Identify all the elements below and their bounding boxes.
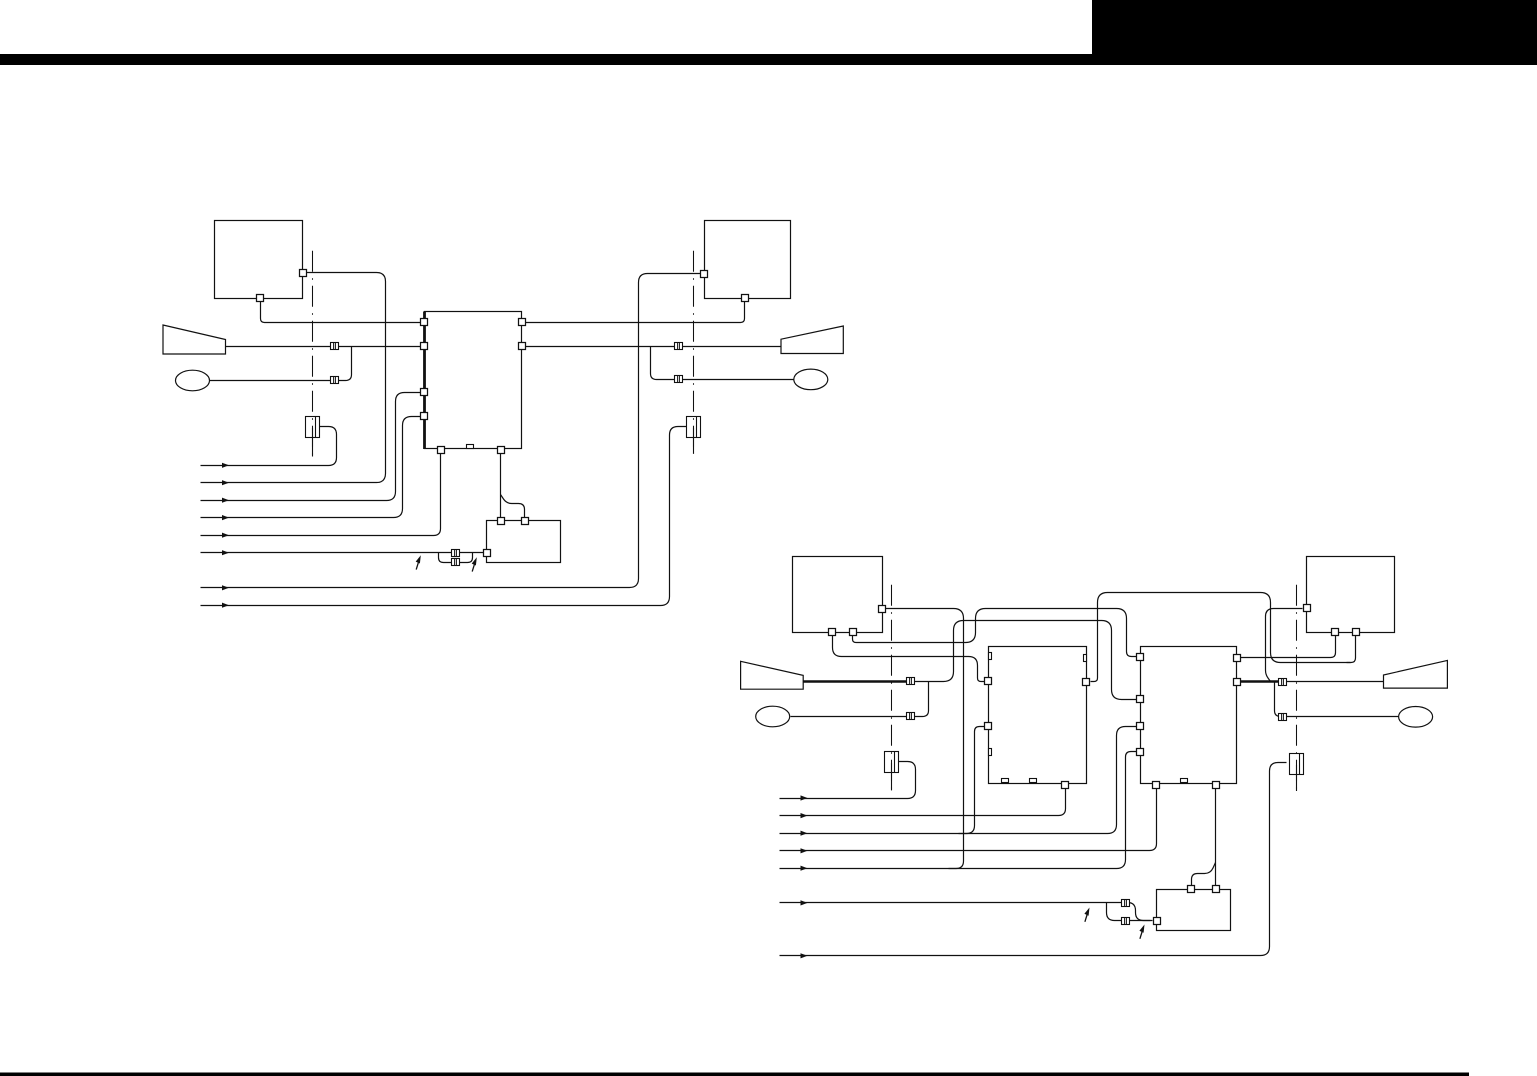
harness line 8 to right fuse [201, 427, 687, 606]
bottom rule bar [0, 1073, 1469, 1076]
header title block (solid) [1092, 0, 1537, 65]
horn speaker left (C1) [163, 325, 226, 354]
arrow head: harness line 7 (C1) [222, 585, 229, 590]
wire: unit B right pin1 to right box bottom pin1 [1241, 636, 1336, 658]
bold wire: unit B right pin2 to connector (C2) [1241, 680, 1280, 683]
arrow head: harness line 8 (C1) [222, 603, 229, 608]
boundary solid segment below left fuse (C1) [312, 428, 314, 457]
wire: battery branch to second top pin [501, 495, 525, 518]
wire: unit pin3 to harness line 3 [201, 393, 421, 501]
pin: left box side (C2) [879, 606, 886, 613]
fuse left (C1) [306, 417, 320, 438]
indicator arrow 1 at battery connector (C2) [1084, 908, 1089, 922]
notch: unit A right top [1084, 655, 1087, 662]
pin: battery left (C2) [1154, 918, 1161, 925]
wire: unit pin4 to harness line 4 [201, 417, 421, 518]
pilot device left (C2) [756, 706, 790, 727]
pin: unit B bottom 2 [1213, 782, 1220, 789]
wire W1: left box side pin down to harness line 5 [886, 609, 964, 869]
speaker box right (C1) [705, 221, 791, 299]
pin: battery top 2 (C1) [522, 518, 529, 525]
boundary solid segment below right fuse (C1) [693, 428, 695, 454]
pin: right box bottom [742, 295, 749, 302]
pin: unit right 1 [519, 319, 526, 326]
wire: bypass loop line 6 (C2) [1107, 903, 1151, 921]
fuse right (C2) [1290, 754, 1304, 775]
wire: unit right pin2 to right horn [525, 346, 781, 348]
speaker box right (C2) [1307, 557, 1395, 633]
wire: left pilot line with jog up to horn line [210, 347, 352, 381]
pin: unit left 3 [421, 389, 428, 396]
connector: left horn line (C1) [331, 343, 339, 350]
fuse right (C1) [687, 417, 701, 438]
pin: unit bottom 1 [438, 447, 445, 454]
pin: unit bottom 2 [498, 447, 505, 454]
connector: right pilot line (C2) [1279, 714, 1287, 721]
harness line 6 to battery left pin [201, 552, 484, 554]
pin: unit A bottom [1062, 782, 1069, 789]
arrow head: harness line 2 (C2) [801, 813, 808, 818]
wire: left fuse to harness line 1 [201, 427, 337, 466]
main unit thick left edge (C1) [423, 312, 426, 450]
connector: right horn line (C2) [1279, 679, 1287, 686]
arrow head: harness line 3 (C1) [222, 498, 229, 503]
pin: unit B right 1 [1234, 655, 1241, 662]
wire W5: left box bottom pin1 to unit A pin [833, 636, 985, 682]
pin: battery top 2 (C2) [1213, 886, 1220, 893]
wire: right pilot line with jog up to horn line [651, 347, 794, 380]
pin: battery top 1 (C2) [1188, 886, 1195, 893]
body boundary line left (C2) [891, 585, 893, 791]
indicator arrow 2 at battery connector (C1) [472, 557, 477, 571]
unit A (C2) [989, 647, 1087, 784]
pin: right box side (C2) [1304, 605, 1311, 612]
wire W3 tail into right box bottom pin2 [1347, 636, 1356, 663]
wire: unit A pin3 branch to line 3 [959, 727, 985, 834]
wire: left box side pin to harness line 2 [201, 273, 386, 483]
body boundary line left (C1) [312, 251, 314, 457]
pin: battery top 1 (C1) [498, 518, 505, 525]
body boundary line right (C1) [693, 251, 695, 454]
pilot device left (C1) [176, 370, 210, 391]
battery connector box (C1) [487, 521, 561, 563]
wire: left box bottom pin to unit pin1 [261, 301, 421, 323]
header rule bar [0, 54, 1092, 65]
pin: unit B left 4 [1137, 749, 1144, 756]
pin: left box bottom 2 (C2) [850, 629, 857, 636]
unit B (C2) [1141, 647, 1237, 784]
pin: right box side [701, 271, 708, 278]
notch: unit bottom (C1) [467, 445, 474, 449]
speaker box left (C1) [215, 221, 303, 299]
harness line 7 to right box side pin [201, 274, 701, 588]
indicator arrow 1 at battery connector (C1) [416, 555, 421, 569]
pin: unit B left 1 [1137, 654, 1144, 661]
arrow head: harness line 4 (C1) [222, 515, 229, 520]
harness line 7 to right fuse (C2) [780, 763, 1287, 956]
arrow head: harness line 4 (C2) [801, 848, 808, 853]
harness line 1 to left fuse (C2) [780, 762, 916, 799]
horn speaker right (C2) [1384, 660, 1448, 688]
connector: right pilot line (C1) [675, 376, 683, 383]
bold wire: left horn to connector (C2) [803, 680, 906, 683]
pin: unit right 2 [519, 343, 526, 350]
boundary solid segment below left fuse (C2) [891, 763, 893, 790]
wire: unit right pin1 to right box bottom pin [525, 301, 745, 323]
notch: unit A left bottom [989, 749, 992, 756]
pin: unit left 4 [421, 413, 428, 420]
notch: unit A bottom 1 [1002, 779, 1009, 783]
arrow head: harness line 5 (C1) [222, 533, 229, 538]
body boundary line right (C2) [1296, 585, 1298, 791]
indicator arrow 2 at battery connector (C2) [1139, 925, 1144, 939]
wire: unit bottom pin2 down to battery [500, 453, 502, 518]
pin: unit A left 2 [985, 723, 992, 730]
connector: battery bypass line (C1) [452, 559, 460, 566]
main unit (C1) [425, 312, 522, 449]
pilot device right (C2) [1399, 707, 1433, 728]
notch: unit B bottom [1181, 779, 1188, 783]
harness line 2 to unit A bottom pin (C2) [780, 787, 1066, 816]
notch: unit A left top [989, 653, 992, 660]
wire: unit bottom pin1 to harness line 5 [201, 453, 441, 536]
wire: left pilot line with jog up to horn net [791, 682, 929, 717]
wire: left horn to unit pin2 [226, 346, 421, 348]
pin: right box bottom 1 (C2) [1332, 629, 1339, 636]
arrow head: harness line 6 (C1) [222, 550, 229, 555]
wire W4: horn net to unit B pin2 [915, 621, 1137, 700]
wire: unit B bottom pin2 to battery pin2 [1215, 787, 1217, 886]
harness line 4 to unit B bottom pin1 (C2) [780, 787, 1157, 851]
connector: left horn line (C2) [907, 678, 915, 685]
harness line 6 to battery (C2) [780, 903, 1153, 921]
connector: right horn line (C1) [675, 343, 683, 350]
pin: left box bottom [257, 295, 264, 302]
boundary solid segment below right fuse (C2) [1296, 765, 1298, 791]
harness line 3 to unit B pin3 (C2) [780, 727, 1137, 834]
wire: battery branch to pin1 (C2) [1192, 863, 1216, 886]
connector: battery main line (C2) [1122, 900, 1130, 907]
speaker box left (C2) [793, 557, 883, 633]
arrow head: harness line 1 (C2) [801, 795, 808, 800]
pin: unit B right 2 [1234, 679, 1241, 686]
pin: unit left 1 [421, 319, 428, 326]
wire: right box side pin down to horn net [1266, 609, 1303, 682]
fuse left (C2) [885, 752, 899, 773]
arrow head: harness line 2 (C1) [222, 480, 229, 485]
arrow head: harness line 3 (C2) [801, 831, 808, 836]
wire W2: left box bottom pin2 to unit B pin1 [853, 609, 1137, 657]
wire W3: unit A right pin to right box bottom pin2 [1091, 593, 1351, 682]
wire: bypass loop under line 6 [439, 553, 473, 563]
pin: left box side [300, 270, 307, 277]
connector: battery main line (C1) [452, 550, 460, 557]
pin: battery left (C1) [484, 550, 491, 557]
connector: battery bypass line (C2) [1122, 918, 1130, 925]
arrow head: harness line 6 (C2) [801, 900, 808, 905]
connector: left pilot line (C1) [331, 377, 339, 384]
battery connector box (C2) [1157, 890, 1231, 931]
wire: connector to right horn (C2) [1287, 681, 1384, 683]
pin: left box bottom 1 (C2) [829, 629, 836, 636]
pilot device right (C1) [794, 369, 828, 390]
pin: unit A right [1083, 679, 1090, 686]
arrow head: harness line 7 (C2) [801, 953, 808, 958]
notch: unit A bottom 2 [1030, 779, 1037, 783]
pin: unit B bottom 1 [1153, 782, 1160, 789]
horn speaker right (C1) [781, 326, 843, 354]
horn speaker left (C2) [741, 661, 804, 689]
pin: unit B left 3 [1137, 723, 1144, 730]
harness line 5 to unit B pin4 (C2) [780, 752, 1137, 869]
arrow head: harness line 5 (C2) [801, 866, 808, 871]
arrow head: harness line 1 (C1) [222, 463, 229, 468]
connector: left pilot line (C2) [907, 713, 915, 720]
pin: right box bottom 2 (C2) [1353, 629, 1360, 636]
wire: right pilot line with jog up to horn net [1275, 682, 1399, 717]
pin: unit B left 2 [1137, 696, 1144, 703]
pin: unit A left 1 [985, 678, 992, 685]
pin: unit left 2 [421, 343, 428, 350]
